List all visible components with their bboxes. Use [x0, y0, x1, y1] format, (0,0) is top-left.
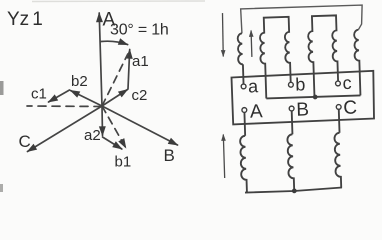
coil A (primary)	[240, 136, 247, 193]
terminal b	[288, 82, 293, 87]
svg-text:c2: c2	[132, 87, 148, 104]
wire: primary star bottom	[245, 188, 342, 193]
coil col 4/5 (hairpin 2)	[307, 15, 338, 97]
svg-text:c: c	[342, 73, 352, 93]
svg-text:b2: b2	[71, 73, 88, 90]
wire: coil1 to terminal a	[242, 64, 245, 84]
svg-text:a: a	[248, 76, 260, 96]
dashed resultant a (center to a1 tip, 30 deg = 1h)	[102, 54, 128, 106]
vector b1 (half winding, from a2 tip down-right)	[103, 137, 122, 149]
coil B (primary)	[287, 134, 294, 191]
svg-text:b: b	[295, 74, 306, 94]
scan artifact: left edge smudge	[0, 81, 4, 95]
terminal B	[289, 106, 294, 111]
svg-text:B: B	[164, 146, 175, 165]
neutral bus inside box	[266, 95, 360, 98]
svg-text:B: B	[296, 99, 309, 120]
vector c2 (half winding, from center up-right)	[102, 90, 128, 107]
wire: terminal A down to primary coil	[243, 112, 246, 135]
svg-text:30° = 1h: 30° = 1h	[110, 22, 169, 39]
terminal box	[232, 71, 375, 125]
junction dot star point	[292, 188, 297, 193]
svg-text:b1: b1	[115, 154, 132, 171]
wire: top interconnection	[241, 5, 363, 33]
svg-text:a1: a1	[132, 53, 149, 70]
vector a1 (half winding, vertical up from c2 tip)	[128, 50, 130, 90]
svg-text:Yz1: Yz1	[7, 9, 43, 30]
svg-text:A: A	[250, 101, 264, 122]
vector a2 (half winding, straight down from center)	[101, 106, 104, 136]
wire: terminal B down	[291, 111, 294, 134]
coil a2 (secondary, col 1)	[237, 33, 243, 64]
svg-text:a2: a2	[84, 127, 101, 144]
arrow down (primary side reference)	[222, 13, 224, 56]
terminal c	[335, 81, 340, 86]
vector C (phase axis, lower left)	[28, 106, 103, 152]
scan artifact: faint top edge line	[32, 0, 205, 3]
vector A (phase axis, up)	[99, 13, 102, 106]
terminal C	[336, 104, 341, 109]
terminal A	[242, 108, 247, 113]
arrow up (primary side reference)	[223, 134, 224, 177]
wire: terminal C down	[338, 109, 341, 133]
arrow up (secondary coil 1)	[250, 30, 253, 56]
coil C (primary)	[334, 133, 341, 188]
svg-text:C: C	[19, 132, 31, 151]
svg-text:C: C	[343, 97, 357, 118]
angle arc 30 deg between A and a	[101, 41, 128, 44]
coil col 2 (hairpin left)	[259, 17, 291, 99]
coil col 6	[354, 30, 361, 96]
junction dot on neutral bus	[313, 95, 318, 100]
vector B (phase axis, lower right)	[102, 106, 178, 145]
svg-text:c1: c1	[31, 86, 47, 103]
vector b2 (half winding, from center up-left)	[71, 91, 103, 107]
dashed resultant c (center to left, horizontal)	[27, 105, 102, 108]
vector c1 (half winding, from b2 tip down-left)	[49, 90, 70, 102]
terminal a	[241, 84, 246, 89]
dashed resultant b (center to b1 tip)	[102, 106, 126, 148]
